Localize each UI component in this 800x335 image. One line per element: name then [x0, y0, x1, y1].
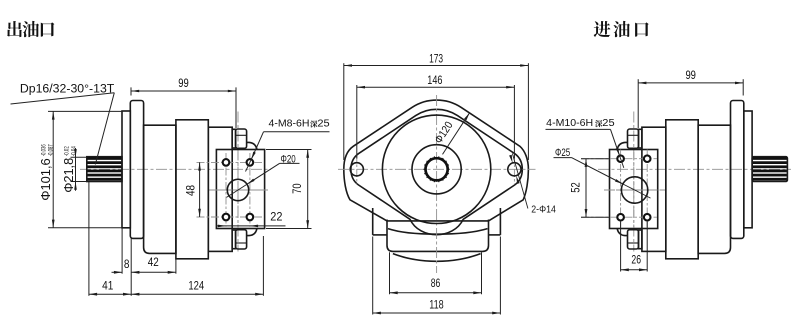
svg-text:4-M8-6H: 4-M8-6H [269, 119, 310, 130]
rear port block [216, 150, 264, 229]
centerline shaft axis left view [80, 168, 271, 170]
dim 42 [175, 253, 177, 273]
title 进油口 [594, 21, 611, 37]
centerline hole row top [197, 161, 263, 163]
svg-text:48: 48 [183, 185, 197, 196]
svg-text:8: 8 [124, 257, 130, 271]
front bearing housing [144, 125, 176, 253]
dim 99 top [130, 87, 132, 95]
svg-text:Dp16/32-30°-13T: Dp16/32-30°-13T [20, 82, 115, 96]
bolt hole M10 top-left [617, 155, 624, 162]
bore circle [412, 145, 461, 194]
centerline hole row top (right) [581, 158, 657, 160]
bolt hole M8 bottom-left [223, 214, 230, 221]
bolt hole M8 bottom-right [247, 214, 254, 221]
dim 26 [620, 221, 622, 272]
centerline shaft axis right view [598, 168, 791, 170]
centerline hole column left [225, 153, 227, 227]
hex plug fitting top [232, 129, 235, 148]
centerline port block vertical right view [633, 112, 635, 252]
hex plug fitting top (right) [639, 129, 642, 148]
splined shaft end (right) [752, 157, 787, 182]
spline shaft end [426, 158, 448, 180]
centerline hole row bottom [197, 216, 263, 218]
centerline hole column right [249, 153, 251, 227]
plug boss arc top (right) [617, 142, 627, 149]
mounting ear hole right [513, 155, 515, 185]
gear housing [176, 120, 208, 259]
leader Φ120 [443, 113, 470, 155]
svg-text:Φ101,6: Φ101,6 [39, 158, 53, 201]
centerline port vertical [237, 152, 239, 228]
plug boss arc bottom (right) [617, 229, 627, 236]
mounting ear hole left [356, 155, 358, 185]
svg-text:86: 86 [431, 276, 441, 290]
mounting flange [130, 101, 143, 239]
oval mounting flange outline [344, 100, 529, 221]
dim 124 [262, 236, 264, 296]
dim 41 [88, 182, 90, 296]
centerline hole column right (right) [646, 150, 648, 227]
svg-text:Φ25: Φ25 [555, 147, 570, 159]
svg-text:99: 99 [178, 76, 189, 90]
svg-text:41: 41 [102, 278, 113, 292]
svg-text:22: 22 [270, 210, 282, 224]
svg-text:99: 99 [685, 68, 696, 82]
spigot circle Φ100 [382, 115, 490, 223]
centerline port vertical (right) [633, 152, 635, 228]
dim 86 [389, 252, 391, 294]
dim 48 [199, 162, 201, 217]
centerline port horizontal left view [209, 189, 268, 191]
title 出油口 [7, 21, 22, 37]
centerline port block vertical left view [237, 112, 239, 252]
front seal plate [122, 111, 130, 228]
mounting flange (right) [731, 101, 744, 239]
gear housing (right) [666, 120, 698, 259]
flange inner bevel curve [351, 109, 522, 234]
svg-text:25: 25 [317, 119, 330, 130]
dim 118 [372, 237, 374, 315]
dim 22 [216, 225, 286, 227]
plug boss arc bottom [247, 229, 257, 236]
port circle Φ20 [227, 179, 248, 200]
svg-text:-0.04: -0.04 [71, 146, 78, 156]
inlet port block [610, 150, 658, 229]
dim 52 [581, 158, 610, 160]
centerline port horizontal over block [210, 189, 267, 191]
centerline hole row bottom (right) [581, 216, 657, 218]
centerline vertical middle view [436, 95, 438, 273]
bolt hole M8 top-right [247, 159, 254, 166]
svg-text:2-Φ14: 2-Φ14 [531, 203, 556, 215]
rear housing (right) [642, 127, 666, 251]
centerline horizontal middle view [338, 168, 536, 170]
dim 99 right view [637, 79, 639, 128]
svg-text:70: 70 [290, 183, 304, 194]
bolt hole M10 bottom-right [644, 214, 651, 221]
centerline port horizontal over block (right) [606, 189, 664, 191]
centerline port horizontal right view [604, 189, 666, 191]
dim Φ101.6 [48, 110, 122, 112]
hex plug fitting bottom (right) [639, 230, 642, 249]
bearing housing (right) [698, 125, 730, 253]
svg-text:173: 173 [429, 51, 443, 65]
splined drive shaft [87, 157, 122, 182]
rear seal plate (right) [744, 111, 752, 228]
svg-text:52: 52 [568, 182, 582, 193]
bolt hole M8 top-left [223, 159, 230, 166]
dim 173 [343, 63, 345, 160]
svg-text:124: 124 [188, 278, 204, 292]
plug boss arc top [247, 142, 257, 149]
dim Φ21.8 [71, 156, 87, 158]
dim 70 [266, 149, 312, 151]
bevel arc across plate [388, 229, 488, 235]
bolt hole M10 bottom-left [617, 214, 624, 221]
dim 8 [121, 228, 123, 274]
svg-text:-0.087: -0.087 [48, 144, 55, 156]
flange bottom tip dip [393, 254, 481, 262]
centerline hole column left (right) [620, 150, 622, 227]
svg-text:25: 25 [602, 118, 615, 129]
hex plug fitting bottom [232, 230, 235, 249]
svg-text:118: 118 [429, 297, 444, 311]
svg-text:146: 146 [427, 73, 442, 87]
svg-text:42: 42 [148, 255, 159, 269]
port circle Φ25 [621, 177, 647, 203]
svg-text:-0.036: -0.036 [41, 144, 48, 156]
dim 146 [356, 85, 358, 159]
bolt hole M10 top-right [644, 155, 651, 162]
front cover plate [387, 220, 489, 252]
svg-text:Φ21,8: Φ21,8 [62, 158, 76, 193]
svg-text:4-M10-6H: 4-M10-6H [546, 118, 593, 129]
gear housing rect 118 wide [372, 208, 374, 235]
svg-text:26: 26 [631, 253, 641, 267]
svg-text:-0.02: -0.02 [64, 146, 71, 156]
rear housing [208, 127, 232, 251]
